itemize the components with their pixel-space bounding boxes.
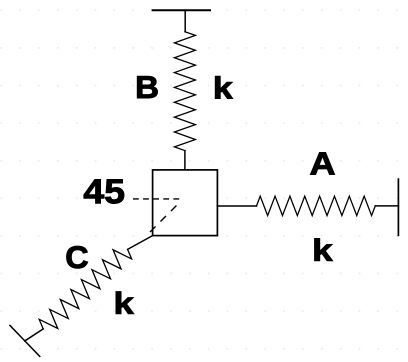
wire spring C to block corner (128, 236, 153, 250)
dashed horizontal angle reference (133, 198, 179, 200)
wire wall to spring C (25, 329, 43, 341)
wall right support (397, 179, 399, 235)
label B (137, 76, 157, 98)
label A (310, 153, 334, 175)
label k of spring B (215, 76, 232, 98)
dashed diagonal angle reference (150, 206, 177, 233)
wire spring B to block (184, 151, 186, 170)
spring C k (39, 249, 131, 329)
wire block to spring A (217, 205, 256, 207)
spring B k (174, 32, 195, 151)
label C (67, 246, 88, 268)
wall lower-left support (10, 325, 40, 356)
wire top connector (184, 10, 186, 31)
label k of spring C (116, 292, 134, 314)
wall top support (153, 9, 210, 11)
label 45 (angle) (84, 180, 124, 204)
wire spring A to right wall (375, 205, 398, 207)
spring A k (257, 196, 376, 215)
label k of spring A (315, 239, 333, 261)
block (mass) (153, 170, 218, 236)
